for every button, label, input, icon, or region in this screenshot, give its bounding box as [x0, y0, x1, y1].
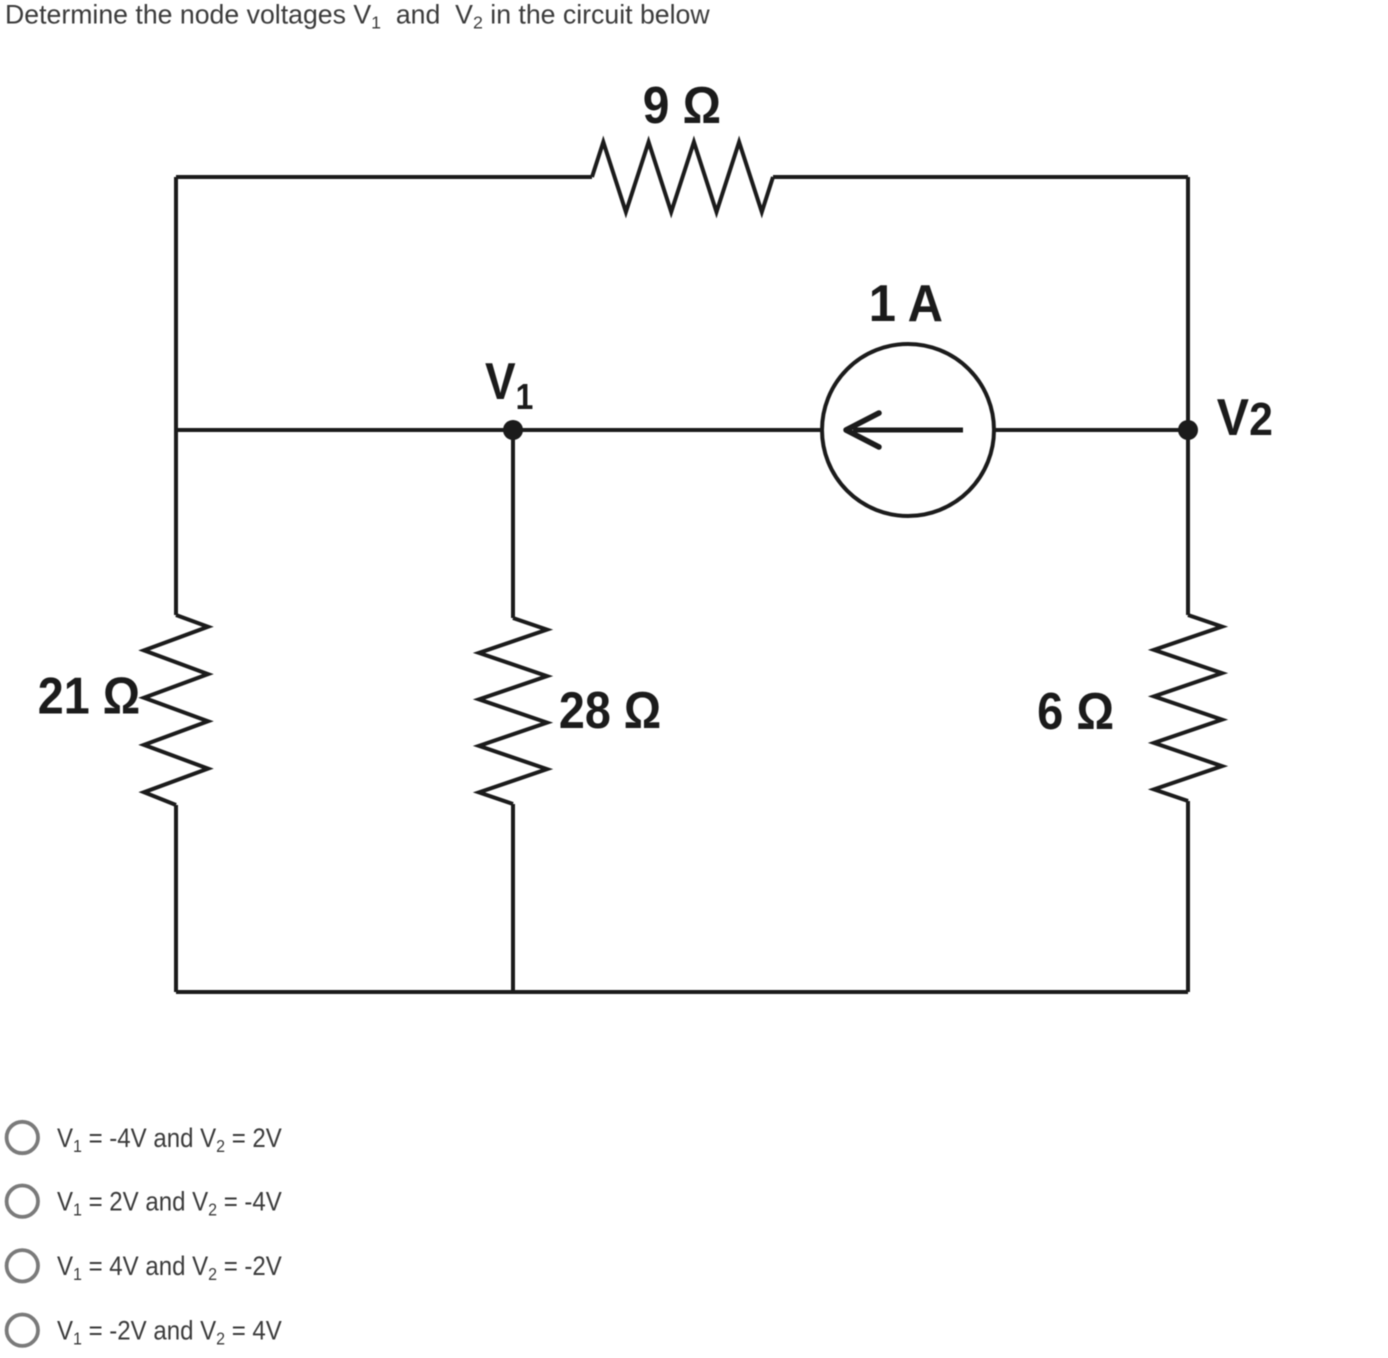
- value label 28 ohm: [559, 682, 661, 740]
- current source I1 1A circle: [822, 344, 994, 516]
- value label 9 ohm: [643, 76, 721, 134]
- node V1 dot: [503, 420, 523, 440]
- wire: top-left to 9ohm resistor left lead: [176, 175, 592, 179]
- radio option 3 circle: [7, 1250, 38, 1281]
- svg-text:28 Ω: 28 Ω: [559, 682, 661, 740]
- resistor R 6ohm zigzag (right wire): [1154, 615, 1222, 801]
- wire: current source to V2 node: [994, 428, 1188, 432]
- svg-text:V1 = -4V and V2 = 2V: V1 = -4V and V2 = 2V: [57, 1124, 282, 1156]
- radio option 2 text: [57, 1187, 282, 1219]
- wire: right vertical upper segment: [1186, 177, 1190, 615]
- radio option 4 text: [57, 1316, 282, 1348]
- svg-text:V1: V1: [485, 353, 533, 417]
- radio option 1 text: [57, 1124, 282, 1156]
- svg-text:9 Ω: 9 Ω: [643, 76, 721, 134]
- svg-text:V1 = -2V and V2 = 4V: V1 = -2V and V2 = 4V: [57, 1316, 282, 1348]
- node V2 label: [1217, 388, 1273, 446]
- value label 21 ohm: [38, 667, 140, 725]
- resistor R 21ohm zigzag (left wire): [144, 615, 208, 805]
- radio option 2 circle: [7, 1186, 38, 1217]
- wire: left vertical upper segment: [174, 177, 178, 615]
- wire: left vertical lower segment: [174, 805, 178, 992]
- radio option 1 circle: [7, 1122, 38, 1153]
- node V1 label: [485, 353, 533, 417]
- radio option 3 text: [57, 1252, 282, 1284]
- wire: middle vertical lower segment: [511, 804, 515, 992]
- svg-text:V2: V2: [1217, 388, 1273, 446]
- svg-text:V1 = 2V and V2 = -4V: V1 = 2V and V2 = -4V: [57, 1187, 282, 1219]
- svg-text:1 A: 1 A: [869, 274, 943, 333]
- title: question text: [5, 0, 710, 33]
- resistor R 28ohm zigzag (middle wire): [479, 618, 547, 804]
- value label 6 ohm: [1037, 682, 1114, 741]
- value label 1 A: [869, 274, 943, 333]
- svg-text:6 Ω: 6 Ω: [1037, 682, 1114, 741]
- current source arrow (pointing left): [853, 428, 963, 433]
- resistor R 9ohm zigzag (top wire): [592, 142, 773, 212]
- node V2 dot: [1178, 420, 1198, 440]
- wire: right vertical lower segment: [1186, 801, 1190, 992]
- svg-text:21 Ω: 21 Ω: [38, 667, 140, 725]
- wire: middle vertical from V1 node down to 28ohm: [511, 430, 515, 618]
- wire: middle horizontal from left wire to current source: [176, 428, 823, 432]
- radio option 4 circle: [7, 1315, 38, 1346]
- wire: bottom: [176, 990, 1188, 994]
- svg-text:Determine the node voltages V1: Determine the node voltages V1 and V2 in…: [5, 0, 710, 33]
- svg-text:V1 = 4V and V2 = -2V: V1 = 4V and V2 = -2V: [57, 1252, 282, 1284]
- wire: 9ohm right lead to top-right corner: [773, 175, 1188, 179]
